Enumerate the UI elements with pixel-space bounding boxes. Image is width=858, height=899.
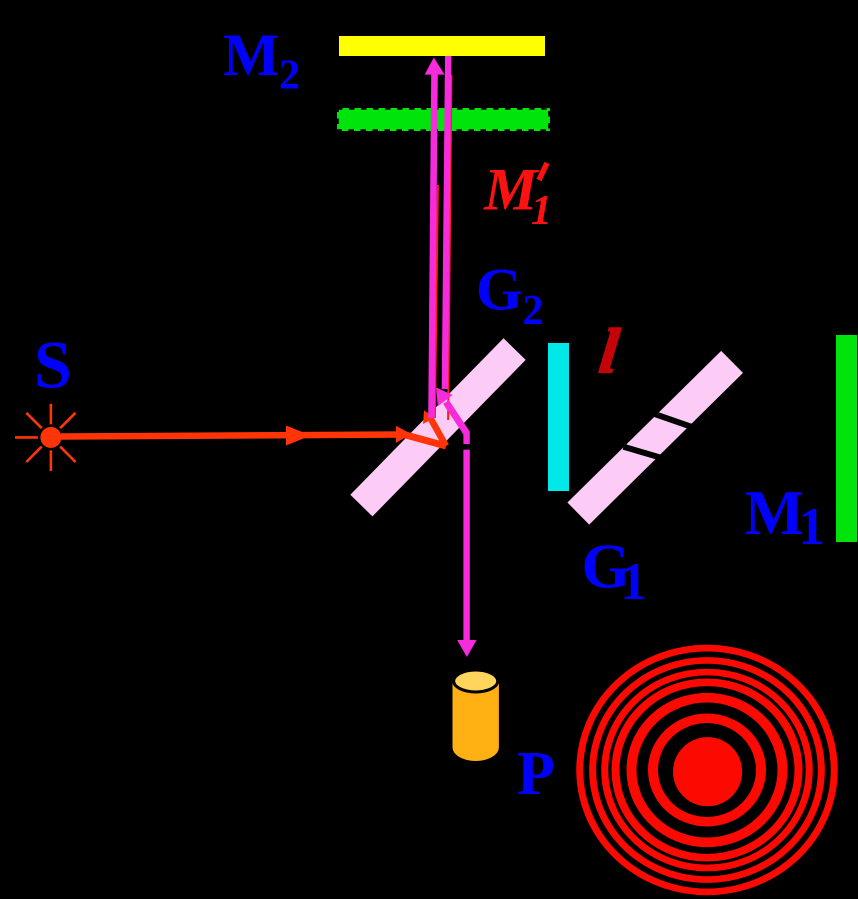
- svg-text:S: S: [34, 327, 72, 403]
- svg-text:1: 1: [621, 553, 648, 611]
- svg-text:G: G: [476, 257, 523, 323]
- svg-text:2: 2: [279, 53, 300, 99]
- svg-text:P: P: [517, 740, 555, 808]
- svg-text:M: M: [223, 22, 280, 88]
- svg-text:1: 1: [799, 498, 826, 556]
- svg-text:2: 2: [523, 288, 544, 334]
- svg-text:M: M: [745, 478, 804, 548]
- svg-text:1: 1: [531, 188, 552, 234]
